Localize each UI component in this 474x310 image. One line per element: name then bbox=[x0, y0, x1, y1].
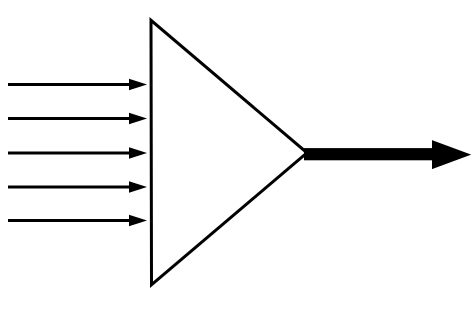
input arrow 4 bbox=[8, 181, 147, 192]
input arrow 1 bbox=[8, 79, 147, 90]
input arrow 5 bbox=[8, 215, 147, 226]
input arrow 2 bbox=[8, 113, 147, 124]
input arrow 3 bbox=[8, 147, 147, 158]
output arrow bbox=[304, 140, 471, 169]
amplifier triangle bbox=[151, 20, 307, 285]
